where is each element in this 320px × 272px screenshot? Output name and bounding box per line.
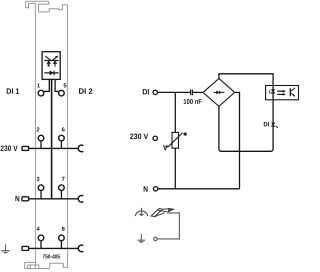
- module 750-405 outline: [25, 1, 68, 268]
- wire DI to varistor: [174, 92, 176, 132]
- bridge diode triangle: [216, 91, 220, 95]
- terminal 5: [64, 83, 67, 87]
- wire LED box to N rail: [51, 79, 53, 198]
- bridge diode line: [214, 91, 225, 93]
- module right edge: [67, 5, 69, 268]
- LED emission arrow left: [45, 56, 50, 60]
- phototransistor collector: [290, 88, 294, 92]
- optocoupler LED emission ticks: [269, 90, 270, 93]
- wire 230V rail: [29, 147, 79, 149]
- status LED D4 cathode bar: [271, 125, 275, 127]
- connector plug 230V: [22, 146, 29, 150]
- module bottom-left hook: [25, 262, 50, 268]
- terminal 8 stub: [60, 241, 62, 249]
- module bottom groove line: [30, 265, 38, 268]
- optocoupler coupling arrow 1: [277, 90, 283, 92]
- module left edge: [34, 3, 36, 268]
- icon tool shaft: [155, 209, 170, 217]
- terminal 7: [62, 177, 65, 181]
- terminal 6: [62, 127, 65, 131]
- terminal 7 stub: [60, 190, 62, 199]
- wire N rail: [29, 198, 79, 200]
- terminal circle 230V right: [153, 136, 157, 140]
- phototransistor Q1 base bar: [289, 88, 291, 96]
- label 100 nF: [184, 99, 202, 104]
- earth ground symbol PE left: [1, 244, 10, 250]
- capacitor C1 plates: [191, 90, 193, 96]
- module bottom-right profile: [50, 263, 68, 268]
- module top-right profile: [39, 1, 68, 12]
- wire DI to capacitor: [157, 91, 190, 93]
- asterisk marker: [183, 132, 186, 136]
- wire terminal5 to LED box: [55, 79, 59, 91]
- terminal 3 stub: [40, 190, 42, 199]
- wire bridge bottom loop to LED cathode: [219, 100, 273, 152]
- wire PE rail: [29, 247, 79, 249]
- terminal 2 stub: [40, 141, 42, 149]
- optocoupler LED cathode bar: [271, 92, 275, 94]
- label DI 2: [79, 88, 92, 93]
- terminal 2: [37, 127, 40, 131]
- label 750-405: [43, 254, 60, 258]
- optocoupler LED wire through box: [272, 86, 274, 100]
- wire varistor to N: [174, 148, 176, 189]
- label DI status LED: [264, 122, 269, 126]
- jumper contact socket N: [78, 196, 83, 203]
- varistor RV1 body: [172, 132, 179, 148]
- terminal 4 stub: [40, 241, 42, 249]
- wire capacitor to bridge: [193, 91, 203, 93]
- status LED D4 emission arrow: [276, 126, 278, 127]
- wire N rail right: [158, 188, 240, 190]
- label DI input: [143, 89, 149, 94]
- LED D2 (right, apex up): [53, 61, 58, 64]
- label N left: [15, 196, 19, 201]
- terminal circle N right: [153, 187, 157, 191]
- label N right: [144, 186, 148, 191]
- terminal 8: [62, 227, 65, 231]
- terminal 1: [37, 83, 40, 87]
- optocoupler U2 box: [266, 86, 299, 100]
- bridge diode cathode bar: [219, 91, 221, 95]
- icon ground symbol: [138, 234, 145, 240]
- label DI 1: [7, 88, 20, 93]
- terminal 4: [37, 227, 40, 231]
- icon actuation opening (arc with arrow): [135, 208, 147, 216]
- diode D3 cathode bar: [53, 71, 55, 76]
- phototransistor emitter with arrow: [290, 93, 294, 97]
- jumper contact socket PE: [78, 245, 83, 252]
- optocoupler LED (apex down): [271, 89, 275, 92]
- LED box U1: [42, 52, 60, 80]
- LED D1 (left, apex up): [46, 61, 51, 64]
- icon operating tool blade: [151, 208, 162, 216]
- diode D3 rail: [44, 72, 58, 74]
- optocoupler coupling arrow 2: [277, 93, 283, 95]
- wire bridge right corner down to N: [235, 92, 240, 188]
- connector plug PE: [22, 246, 29, 250]
- wire terminal1 to LED box: [44, 79, 50, 91]
- module top-left hook: [26, 1, 36, 8]
- label V varistor: [163, 145, 168, 150]
- label 230 V right: [130, 134, 148, 140]
- wire bridge top to optocoupler: [219, 74, 273, 86]
- terminal circle DI: [153, 90, 157, 94]
- status LED D4 (apex down) on wire: [271, 123, 275, 126]
- icon wire tool to clamp: [157, 213, 179, 239]
- LED pair rail: [44, 60, 58, 62]
- bridge rectifier B1 diamond: [203, 79, 235, 107]
- terminal 3: [37, 177, 40, 181]
- icon clamp circle: [154, 237, 157, 240]
- label 230 V left: [1, 146, 18, 152]
- terminal 6 stub: [60, 141, 62, 149]
- module top edge: [26, 0, 49, 2]
- diode D3 (apex right): [50, 71, 54, 76]
- icon tool tip: [168, 208, 174, 212]
- LED D1 lead and bar: [47, 64, 50, 67]
- LED emission arrow right with head: [53, 57, 57, 61]
- LED D2 lead: [54, 64, 56, 67]
- module bottom foot notch: [28, 265, 31, 269]
- varistor RV1 diagonal: [165, 133, 182, 147]
- connector plug N: [22, 197, 29, 201]
- jumper contact socket 230V: [78, 145, 83, 152]
